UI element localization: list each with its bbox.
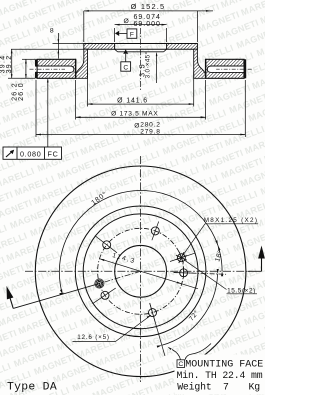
chamfer note 3.5/3.0 x45: [156, 54, 158, 84]
wheel bolt hole at 70 deg: [151, 227, 159, 235]
vent slot centerline: [30, 68, 66, 70]
mask for mounting label: [175, 355, 266, 395]
svg-text:Min. TH 22.4 mm: Min. TH 22.4 mm: [177, 370, 263, 381]
outer circle dia 280: [35, 166, 246, 377]
bore circle dia 69: [115, 245, 167, 297]
M8 threaded hole at 196.5 deg: [96, 280, 103, 287]
section cutting plane right: [248, 270, 262, 272]
friction band section right: [206, 59, 244, 78]
hat wall and fillet right: [194, 49, 206, 78]
bore chamfer: [118, 51, 164, 53]
wheel bolt hole at 214 deg: [101, 291, 109, 299]
hat plate section right: [167, 44, 198, 50]
dim dia 69.074 / 69.000: [115, 24, 167, 26]
svg-text:Ø 152.5: Ø 152.5: [131, 2, 166, 11]
wheel bolt hole at 358 deg: [180, 269, 188, 277]
svg-text:C: C: [178, 361, 183, 368]
svg-text:3.0·×45°: 3.0·×45°: [144, 51, 152, 78]
svg-text:Ø 173.5 MAX: Ø 173.5 MAX: [111, 111, 158, 118]
svg-text:39.2: 39.2: [6, 55, 13, 74]
dim 26.2 / 26.0 band thickness: [25, 59, 27, 78]
circle dia 173.5: [75, 206, 206, 337]
72 deg dimension arc: [162, 274, 218, 345]
svg-text:F: F: [130, 31, 134, 38]
svg-text:Kg: Kg: [249, 381, 261, 392]
dim dia 152.5: [84, 10, 213, 12]
bolt hole ray 358 deg: [174, 273, 227, 275]
feature control frame runout 0.080 FC: [47, 79, 49, 147]
wheel bolt hole at 142 deg: [103, 241, 111, 249]
svg-text:M8X1.25 (X2): M8X1.25 (X2): [204, 217, 258, 224]
vertical centerline: [140, 156, 142, 382]
svg-text:0.080: 0.080: [20, 150, 42, 159]
dim dia 141.6: [87, 72, 89, 107]
svg-text:26.0: 26.0: [18, 82, 25, 101]
svg-text:7: 7: [223, 381, 229, 392]
disc outer edge bar left: [35, 59, 37, 66]
M8 threaded hole at 18.5 deg: [177, 254, 185, 262]
svg-text:Weight: Weight: [177, 381, 211, 392]
datum F flag: [115, 31, 119, 36]
svg-text:69.074: 69.074: [133, 14, 160, 21]
wheel bolt hole at 286 deg: [149, 309, 157, 317]
vent slot centerline: [216, 68, 252, 70]
friction band section left: [37, 59, 75, 78]
circle dia 152.5: [83, 214, 198, 329]
svg-text:FC: FC: [48, 150, 59, 159]
svg-text:Ø 141.6: Ø 141.6: [117, 98, 148, 105]
crosshair tick 358 hole: [183, 267, 185, 278]
section cutting plane left: [99, 271, 140, 283]
svg-text:Ø: Ø: [134, 122, 140, 129]
hat plate section left: [84, 44, 115, 50]
svg-text:279.8: 279.8: [140, 128, 161, 135]
svg-text:Ø: Ø: [123, 18, 129, 25]
contour kink near label: [185, 344, 211, 360]
dim 39.4 / 39.2 height: [11, 49, 13, 78]
dim 114.3 PCD: [100, 259, 199, 289]
datum C flag: [123, 49, 128, 53]
hat wall and fillet left: [76, 49, 88, 78]
bolt circle PCD 114.3: [98, 228, 184, 314]
small arrow on cutting ray: [59, 293, 64, 295]
dim dia 173.5 MAX: [75, 80, 77, 120]
bolt hole ray 286 deg extended: [150, 303, 165, 356]
svg-text:Type DA: Type DA: [7, 381, 57, 393]
svg-text:12.6 (×5): 12.6 (×5): [77, 334, 110, 341]
mounting face leader: [172, 350, 181, 360]
svg-text:MOUNTING FACE: MOUNTING FACE: [185, 359, 263, 370]
svg-text:8: 8: [50, 28, 54, 35]
disc outer edge bar right: [244, 59, 246, 78]
svg-text:69.000: 69.000: [133, 21, 160, 28]
18 deg dimension arc: [218, 245, 222, 271]
vent slot right: [207, 66, 244, 72]
horizontal centerline: [25, 270, 250, 272]
label C MOUNTING FACE: [177, 360, 185, 368]
vent slot left: [37, 66, 74, 72]
svg-text:C: C: [123, 64, 128, 71]
plate far-side lines across bore: [115, 43, 167, 45]
180 deg dimension arc: [59, 190, 218, 294]
section axis centerline: [140, 28, 142, 90]
dim dia 280.2 / 279.8: [35, 80, 37, 137]
